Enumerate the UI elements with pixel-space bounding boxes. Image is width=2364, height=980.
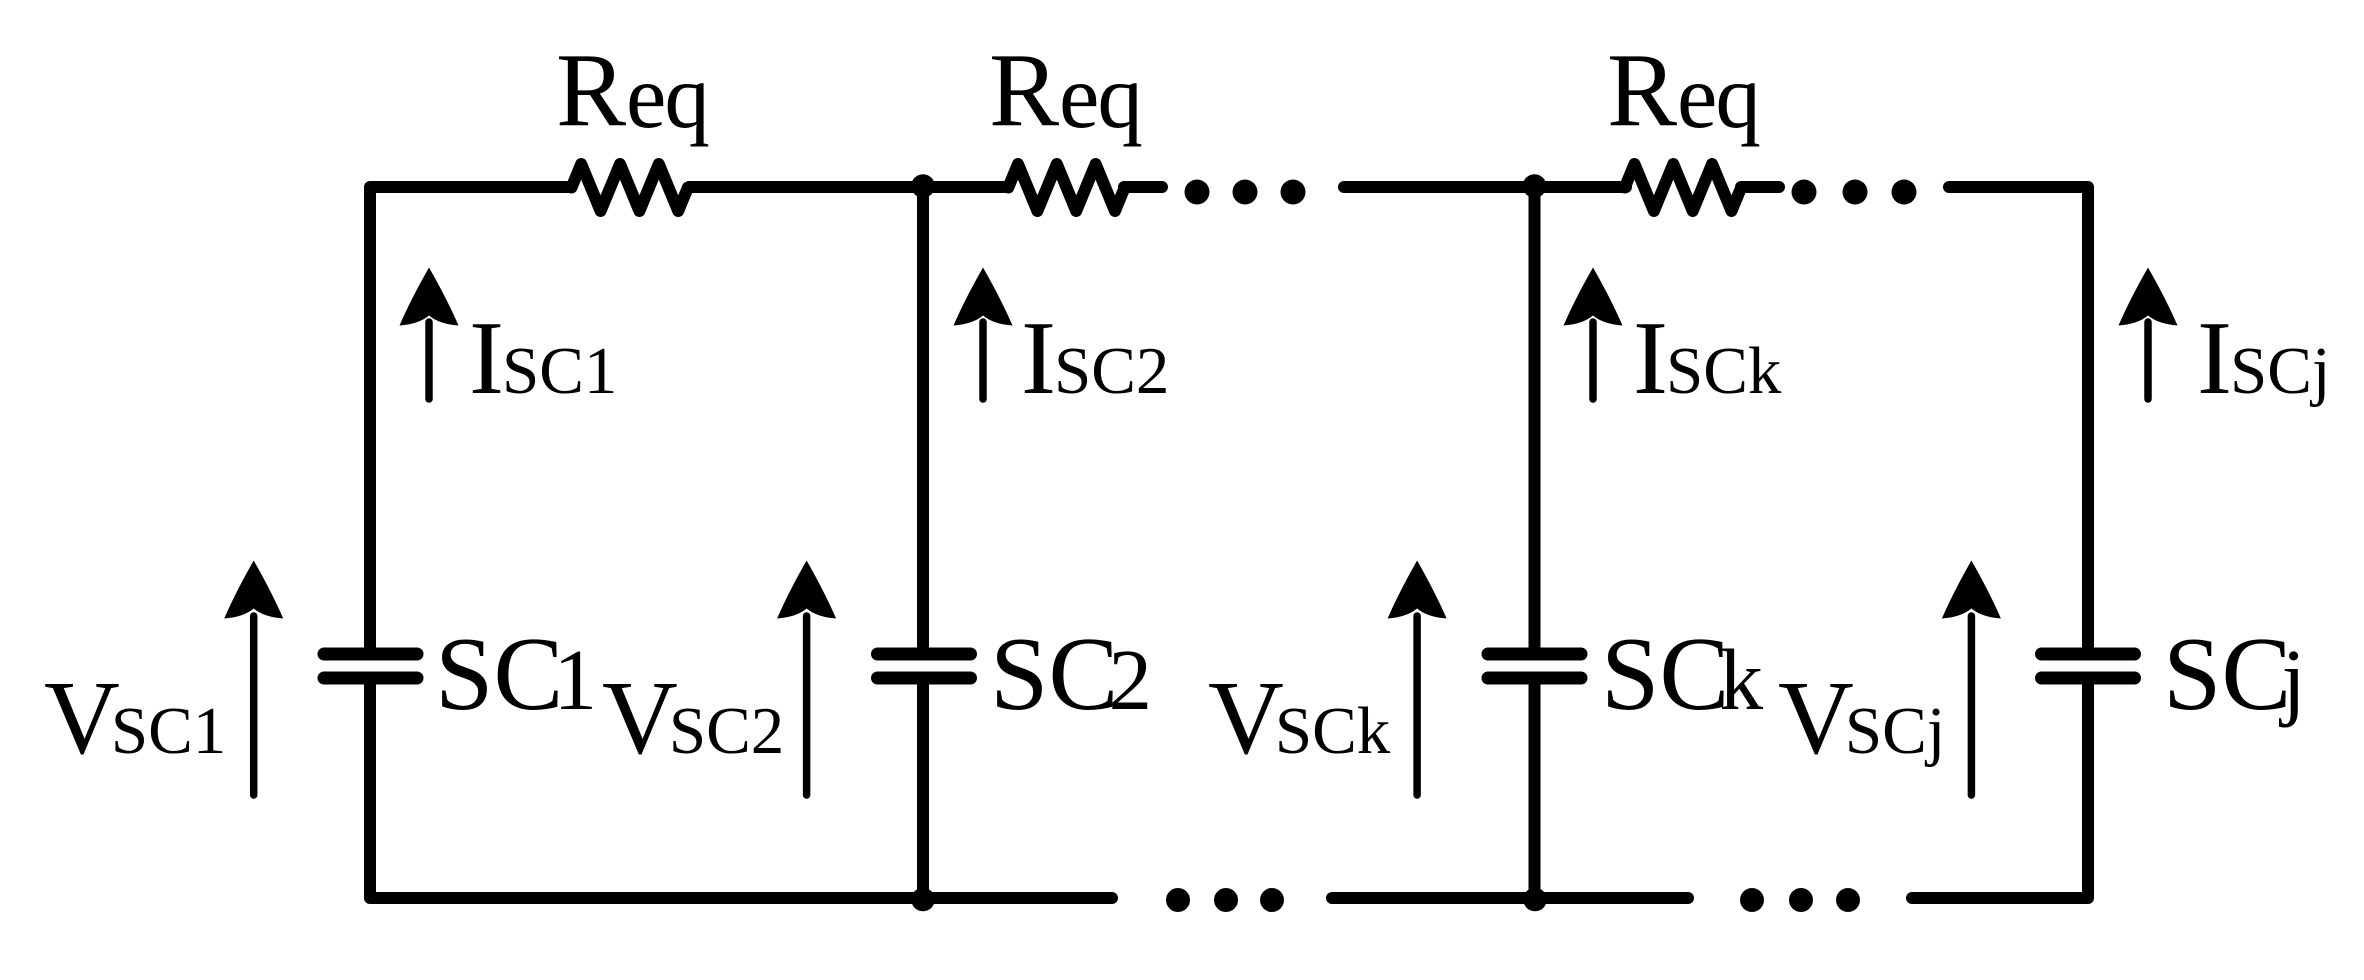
svg-text:SC2: SC2 (990, 615, 1152, 732)
node junction dot (top of SC2 branch) (911, 174, 935, 198)
wire: SCk branch vertical (bottom lead) (1529, 677, 1541, 898)
wire: SC2 branch vertical (top lead) (917, 187, 929, 655)
svg-text:Req: Req (556, 31, 708, 148)
svg-text:SC1: SC1 (435, 615, 597, 732)
wire: top bus segment from left corner to R1 (370, 187, 572, 655)
voltage arrow VSC2 (803, 616, 811, 795)
wire: top bus stub after R2 (1124, 181, 1162, 193)
current arrow ISCk (1589, 322, 1597, 399)
current arrow ISCj (2144, 322, 2152, 399)
wire: bottom bus segment from left corner through SC2 node (370, 680, 1112, 898)
resistor R3 (Req) zigzag (1625, 164, 1741, 211)
svg-text:SCj: SCj (2163, 615, 2306, 732)
node junction dot (bottom of SCk branch) (1523, 888, 1547, 912)
wire: top bus segment from R1 through node to R2 (687, 181, 1009, 193)
ellipsis dots: bottom bus continuation (right) (1740, 888, 1764, 912)
voltage arrow VSCk (1413, 616, 1421, 795)
node junction dot (top of SCk branch) (1523, 174, 1547, 198)
svg-text:SCk: SCk (1601, 615, 1763, 732)
capacitor SC1 plates (324, 648, 417, 661)
ellipsis dots: bottom bus continuation (1166, 888, 1190, 912)
wire: SC2 branch vertical (bottom lead) (917, 677, 929, 898)
wire: bottom bus segment to right corner (1912, 680, 2088, 898)
wire: top bus segment through node k to R3 (1344, 181, 1626, 193)
resistor R1 (Req) zigzag (572, 164, 688, 211)
voltage arrow VSCj (1968, 616, 1976, 795)
voltage arrow VSC1 (250, 616, 258, 795)
capacitor SC2 plates (878, 648, 971, 661)
svg-text:Req: Req (1607, 31, 1759, 148)
ellipsis dots: top bus continuation (1185, 180, 1210, 205)
svg-text:Req: Req (989, 31, 1141, 148)
wire: top bus stub after R3 (1741, 181, 1779, 193)
current arrow ISC2 (979, 322, 987, 399)
capacitor SCk plates (1488, 648, 1581, 661)
wire: bottom bus segment through SCk node (1332, 892, 1688, 904)
capacitor SCj plates (2042, 648, 2135, 661)
resistor R2 (Req) zigzag (1008, 164, 1124, 211)
ellipsis dots: top bus continuation (right) (1792, 180, 1817, 205)
wire: top bus segment to right corner (1949, 187, 2088, 652)
current arrow ISC1 (425, 322, 433, 399)
wire: SCk branch vertical (top lead) (1529, 187, 1541, 655)
node junction dot (bottom of SC2 branch) (911, 888, 935, 912)
